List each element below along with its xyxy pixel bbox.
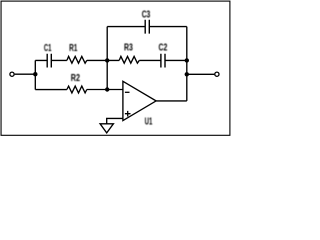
svg-text:R2: R2 xyxy=(71,73,80,84)
svg-text:U1: U1 xyxy=(145,116,153,127)
svg-text:R1: R1 xyxy=(69,43,78,54)
svg-text:C2: C2 xyxy=(159,43,168,54)
svg-text:C3: C3 xyxy=(142,9,151,20)
svg-text:C1: C1 xyxy=(44,43,52,54)
svg-text:R3: R3 xyxy=(124,43,133,54)
